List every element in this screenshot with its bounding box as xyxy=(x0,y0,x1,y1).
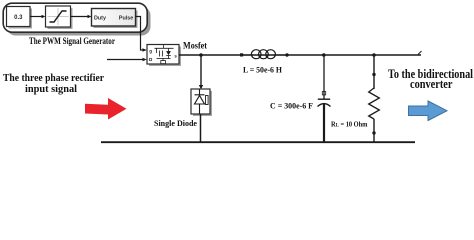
svg-text:RL = 10 Ohm: RL = 10 Ohm xyxy=(331,121,368,129)
svg-text:0.3: 0.3 xyxy=(14,15,23,21)
svg-text:Mosfet: Mosfet xyxy=(183,40,207,50)
svg-text:C = 300e-6 F: C = 300e-6 F xyxy=(270,100,313,110)
svg-text:The three phase rectifier: The three phase rectifier xyxy=(3,73,104,84)
svg-text:g: g xyxy=(149,49,152,54)
svg-text:The PWM Signal Generator: The PWM Signal Generator xyxy=(29,36,115,47)
svg-text:input signal: input signal xyxy=(25,84,77,95)
svg-text:L = 50e-6 H: L = 50e-6 H xyxy=(243,65,282,75)
svg-text:Pulse: Pulse xyxy=(119,15,133,21)
svg-text:Single Diode: Single Diode xyxy=(154,119,197,128)
svg-text:converter: converter xyxy=(410,77,453,91)
svg-text:Duty: Duty xyxy=(94,15,106,21)
